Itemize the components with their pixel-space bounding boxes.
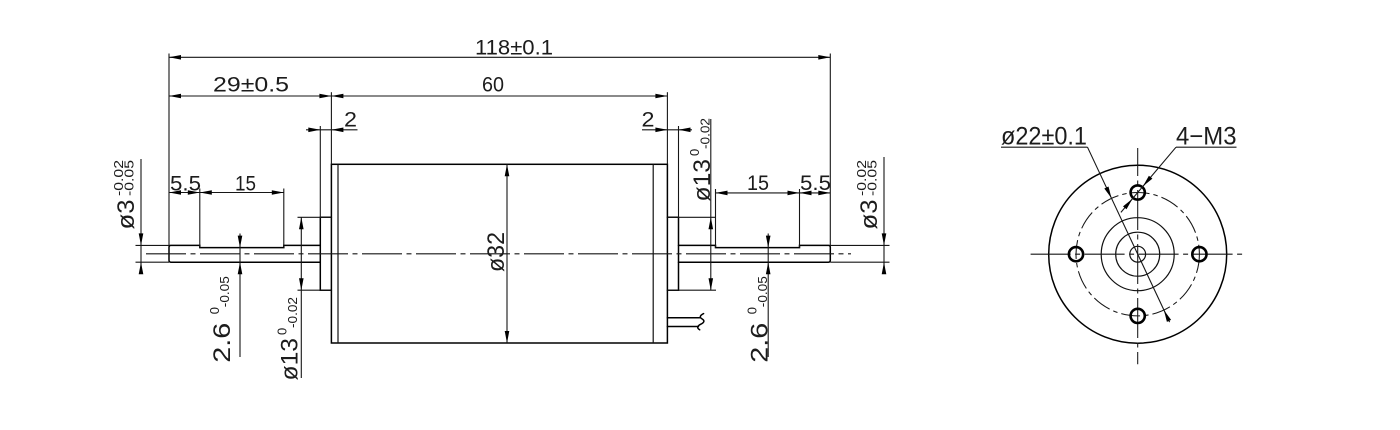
svg-text:2: 2 [344, 109, 357, 132]
dim 2.6 left line [239, 234, 241, 358]
svg-text:2.6: 2.6 [746, 323, 773, 363]
svg-text:60: 60 [482, 74, 504, 97]
dim 15 left arrows [200, 190, 212, 195]
svg-text:ø22±0.1: ø22±0.1 [1001, 123, 1087, 151]
end view horizontal centerline [1031, 253, 1246, 255]
svg-text:-0.05: -0.05 [755, 276, 770, 307]
dim 2.6 right line [767, 234, 769, 358]
can rear inner seam line [652, 164, 654, 343]
dim 15/5.5 right extension lines [715, 189, 717, 248]
dia 3 left dim line [140, 159, 142, 274]
dim 29/60 extension lines [330, 92, 332, 164]
dia 13 front label [275, 297, 304, 381]
dia 3 left extension lines [136, 244, 170, 246]
svg-text:ø3: ø3 [113, 200, 140, 230]
4-M3 leader line [1121, 147, 1176, 212]
end view outer circle (dia 32) [1049, 165, 1227, 343]
dia 3 right label [854, 160, 883, 230]
dim 5.5 left line [169, 192, 284, 194]
svg-text:-0.05: -0.05 [121, 160, 136, 196]
end view bearing circle [1116, 232, 1160, 276]
svg-text:ø13: ø13 [689, 159, 716, 202]
dia 13 front dim line [300, 217, 302, 378]
svg-text:-0.05: -0.05 [864, 160, 879, 196]
end view shaft circle (dia 3) [1130, 246, 1146, 262]
dia 3 right dim line [883, 157, 885, 274]
rear bearing boss (2mm, dia 13) [667, 217, 678, 290]
left shaft (dia 3) with milled flat [169, 245, 320, 262]
M3 tapped hole bottom [1131, 309, 1145, 323]
rear terminal lead with break squiggle [667, 317, 699, 319]
svg-text:-0.02: -0.02 [697, 118, 712, 149]
dia 13 rear label [687, 118, 716, 202]
svg-text:15: 15 [235, 173, 256, 196]
svg-text:4−M3: 4−M3 [1176, 123, 1237, 151]
dim 118±0.1 extension lines [168, 54, 170, 246]
dia 3 right extension lines [830, 244, 889, 246]
dim 5.5/15 left extension lines [199, 189, 201, 248]
svg-text:15: 15 [747, 172, 769, 195]
svg-text:5.5: 5.5 [170, 173, 201, 196]
dia 13 rear dim line [710, 119, 712, 290]
svg-text:ø13: ø13 [277, 338, 304, 381]
M3 tapped hole right [1192, 247, 1206, 261]
svg-text:2: 2 [642, 109, 655, 132]
svg-text:ø32: ø32 [483, 232, 510, 272]
svg-text:29±0.5: 29±0.5 [213, 74, 289, 97]
end view vertical centerline [1137, 148, 1139, 364]
dim 2 (rear boss) line [642, 129, 692, 131]
dim 2.6 right label [744, 276, 773, 363]
side view centerline [146, 253, 851, 255]
dia 32 dim line [506, 164, 508, 343]
svg-text:5.5: 5.5 [800, 172, 831, 195]
dia 22±0.1 leader line [1088, 147, 1170, 322]
dim 118±0.1 line [169, 56, 830, 58]
dim 2 (rear boss) extension line [678, 126, 680, 217]
dim 29±0.5 line [169, 95, 331, 97]
dim 5.5 right arrows [800, 191, 812, 196]
dim 2.6 left label [207, 276, 236, 363]
svg-text:-0.02: -0.02 [285, 297, 300, 328]
dim 60 line [331, 95, 667, 97]
dim 15 right line [716, 192, 831, 194]
end view bolt circle dia 22 (dash-dot) [1076, 193, 1199, 316]
dia 3 left label [111, 160, 140, 230]
can front inner seam line [337, 164, 339, 343]
M3 tapped hole top [1131, 185, 1145, 199]
dia 13 front extension lines [298, 216, 332, 218]
M3 tapped hole left [1069, 247, 1083, 261]
svg-text:ø3: ø3 [856, 200, 883, 230]
svg-text:118±0.1: 118±0.1 [475, 37, 553, 60]
dia 13 rear extension lines [667, 216, 716, 218]
motor body (can) outline [331, 164, 667, 343]
dim 2 (front boss) line [306, 129, 358, 131]
svg-text:2.6: 2.6 [209, 323, 236, 363]
end view boss circle (dia 13) [1101, 218, 1174, 291]
svg-text:-0.05: -0.05 [217, 276, 232, 307]
right shaft (dia 3) with milled flat [679, 245, 831, 262]
dia 32 label [483, 232, 510, 272]
dim 2 (front boss) extension line [319, 126, 321, 217]
front bearing boss (2mm, dia 13) [320, 217, 331, 290]
